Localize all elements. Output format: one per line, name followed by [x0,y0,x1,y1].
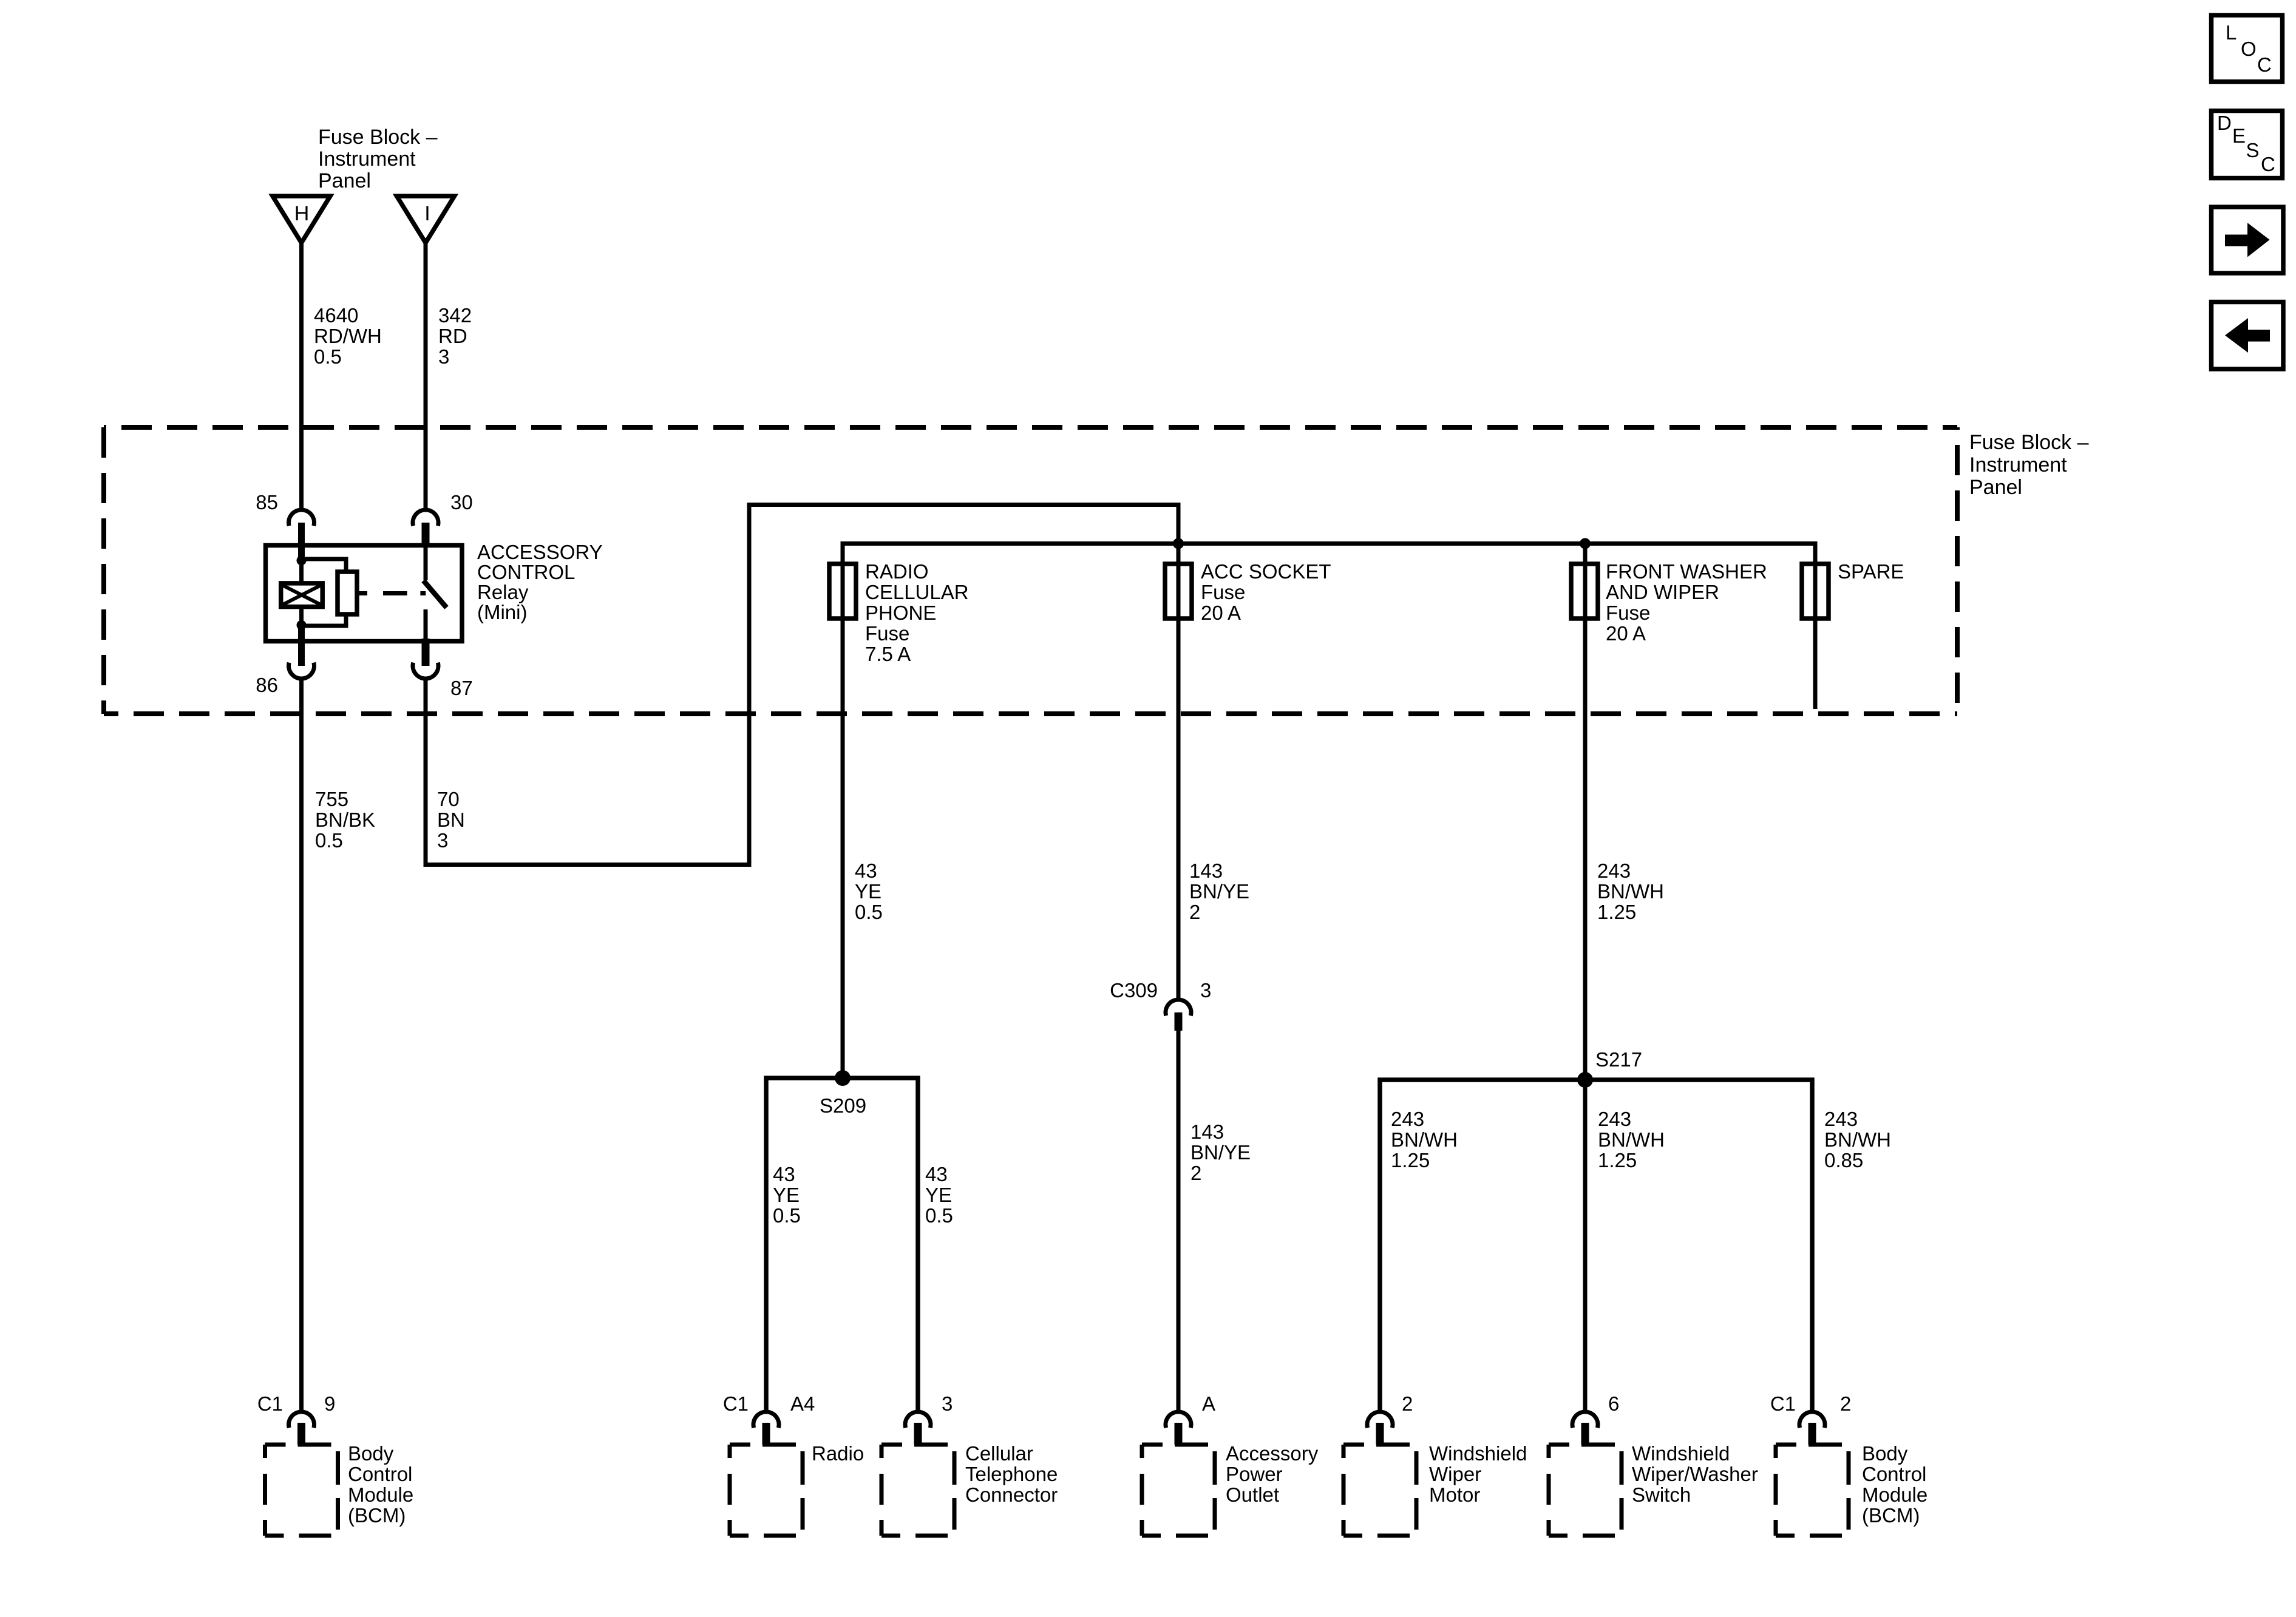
svg-text:43: 43 [773,1163,795,1185]
fuse F1: RADIO CELLULAR PHONE [829,564,856,619]
wire label 243 BN/WH 1.25 (upper) [1597,859,1664,923]
wire label 43 YE 0.5 (S209 left) [773,1163,801,1227]
svg-text:Module: Module [348,1483,413,1506]
legend box DESC [2212,111,2283,178]
svg-text:Fuse Block –: Fuse Block – [1969,431,2089,454]
svg-text:143: 143 [1189,859,1223,882]
wire label 43 YE 0.5 (upper) [855,859,883,923]
relay coil leg wire [299,546,304,583]
svg-text:Accessory: Accessory [1226,1442,1319,1465]
svg-text:342: 342 [438,304,472,327]
wire from triangle I to pin 30 [424,243,428,510]
svg-text:S217: S217 [1595,1048,1642,1071]
svg-text:BN/WH: BN/WH [1824,1128,1891,1151]
svg-text:9: 9 [324,1392,335,1415]
svg-text:30: 30 [450,491,473,514]
svg-text:3: 3 [438,345,449,368]
svg-text:A: A [1202,1392,1215,1415]
fuse F2: ACC SOCKET [1165,564,1192,619]
svg-text:0.5: 0.5 [925,1204,953,1227]
svg-text:43: 43 [855,859,877,882]
splice S217 [1380,1048,1812,1412]
svg-text:Wiper: Wiper [1429,1463,1481,1485]
svg-text:2: 2 [1190,1162,1201,1184]
svg-text:C: C [2261,153,2275,175]
svg-text:Instrument: Instrument [1969,453,2067,476]
svg-text:PHONE: PHONE [865,602,936,624]
fuse bus [843,544,1815,619]
svg-text:S: S [2246,139,2260,161]
svg-text:Control: Control [348,1463,412,1485]
svg-text:7.5 A: 7.5 A [865,643,911,665]
svg-text:E: E [2232,124,2246,147]
svg-text:ACC SOCKET: ACC SOCKET [1201,560,1331,583]
svg-text:C1: C1 [723,1392,749,1415]
svg-text:6: 6 [1608,1392,1619,1415]
relay label [477,541,603,623]
svg-text:FRONT WASHER: FRONT WASHER [1606,560,1767,583]
svg-text:Panel: Panel [1969,476,2022,499]
svg-text:A4: A4 [790,1392,815,1415]
svg-text:3: 3 [437,829,448,852]
relay U: ACCESSORY CONTROL Relay (Mini) box [266,546,463,642]
svg-text:YE: YE [855,880,881,903]
svg-text:Panel: Panel [318,169,371,192]
svg-text:Windshield: Windshield [1429,1442,1527,1465]
coil suppression resistor branch [302,559,358,626]
svg-text:1.25: 1.25 [1391,1149,1430,1171]
svg-text:2: 2 [1189,901,1200,923]
header: Fuse Block - Instrument Panel (top left) [318,126,438,192]
svg-text:AND WIPER: AND WIPER [1606,581,1719,603]
junction dot (coil top) [297,555,307,565]
wire label 243 BN/WH 1.25 (S217 middle) [1598,1108,1665,1171]
svg-text:Cellular: Cellular [965,1442,1033,1465]
fuse F3: FRONT WASHER AND WIPER [1571,564,1598,619]
svg-text:87: 87 [450,677,473,699]
svg-text:(BCM): (BCM) [348,1504,406,1527]
svg-text:Radio: Radio [812,1442,864,1465]
svg-text:Outlet: Outlet [1226,1483,1279,1506]
svg-text:0.85: 0.85 [1824,1149,1863,1171]
connector/component: Windshield Wiper Motor [1343,1392,1527,1536]
svg-text:I: I [424,202,430,225]
svg-text:4640: 4640 [314,304,358,327]
pin 87 [413,639,473,699]
wire C309 to outlet [1177,1030,1181,1412]
svg-text:143: 143 [1190,1120,1224,1143]
svg-text:BN: BN [437,808,465,831]
svg-text:L: L [2226,21,2237,44]
svg-text:CONTROL: CONTROL [477,561,575,583]
wire label 342 RD 3 [438,304,472,368]
svg-text:2: 2 [1840,1392,1851,1415]
svg-text:243: 243 [1391,1108,1424,1130]
wire label 43 YE 0.5 (S209 right) [925,1163,953,1227]
svg-text:RADIO: RADIO [865,560,929,583]
svg-text:C1: C1 [257,1392,283,1415]
junction dot (coil bottom) [297,620,307,630]
svg-text:1.25: 1.25 [1597,901,1636,923]
wire label 4640 RD/WH 0.5 [314,304,382,368]
junction dot bus/ACC [1173,538,1184,549]
svg-text:RD: RD [438,325,467,347]
svg-text:86: 86 [256,674,278,696]
svg-text:20 A: 20 A [1201,602,1241,624]
wire ACC fuse to C309 [1177,619,1181,1001]
fuse F2 label [1201,560,1331,624]
svg-text:(BCM): (BCM) [1862,1504,1920,1527]
svg-text:O: O [2241,38,2257,60]
wire coil bottom to dot [299,607,304,627]
svg-text:3: 3 [1200,979,1211,1002]
svg-text:H: H [294,202,310,225]
svg-text:C309: C309 [1110,979,1158,1002]
svg-text:243: 243 [1597,859,1631,882]
svg-text:YE: YE [773,1184,800,1206]
svg-text:Telephone: Telephone [965,1463,1058,1485]
connector/component: Accessory Power Outlet [1142,1392,1319,1536]
off-page connector triangle H [273,196,330,243]
relay coil (crossed box) [281,583,323,607]
fuse F3 label [1606,560,1767,645]
svg-text:Switch: Switch [1632,1483,1691,1506]
wire label 243 BN/WH 0.85 (S217 right) [1824,1108,1891,1171]
svg-text:Fuse: Fuse [1201,581,1245,603]
wire label 143 BN/YE 2 (upper) [1189,859,1249,923]
fuse F1 label [865,560,969,665]
wire spare fuse stub [1813,619,1818,709]
svg-text:Body: Body [348,1442,394,1465]
legend box arrow left [2212,302,2284,370]
connector/component: Radio [723,1392,864,1536]
legend box LOC [2212,15,2283,82]
svg-text:(Mini): (Mini) [477,601,527,623]
pin 30 [413,491,473,547]
connector/component: Body Control Module (BCM) right [1770,1392,1927,1536]
connector/component: Windshield Wiper/Washer Switch [1549,1392,1758,1536]
svg-text:BN/WH: BN/WH [1597,880,1664,903]
svg-text:755: 755 [315,788,348,810]
wire bus to washer fuse [1583,544,1588,619]
junction dot bus/washer [1580,538,1591,549]
svg-text:RD/WH: RD/WH [314,325,382,347]
svg-text:BN/BK: BN/BK [315,808,375,831]
svg-text:BN/WH: BN/WH [1598,1128,1665,1151]
svg-text:Motor: Motor [1429,1483,1480,1506]
svg-text:BN/YE: BN/YE [1190,1141,1251,1164]
wire from triangle H to pin 85 [299,243,304,510]
svg-text:YE: YE [925,1184,952,1206]
svg-text:Windshield: Windshield [1632,1442,1730,1465]
fuse block dashed box [104,427,1957,714]
svg-text:0.5: 0.5 [315,829,343,852]
actuator dashed link [357,591,426,595]
svg-text:SPARE: SPARE [1838,560,1904,583]
svg-text:BN/WH: BN/WH [1391,1128,1458,1151]
wire label 243 BN/WH 1.25 (S217 left) [1391,1108,1458,1171]
svg-text:Fuse: Fuse [1606,602,1650,624]
svg-text:S209: S209 [820,1094,866,1117]
svg-text:0.5: 0.5 [314,345,342,368]
svg-text:85: 85 [256,491,278,514]
wire label 755 BN/BK 0.5 [315,788,375,852]
splice S209 [766,1070,918,1412]
svg-text:243: 243 [1598,1108,1631,1130]
connector/component: Body Control Module (BCM) left [257,1392,413,1536]
svg-text:C1: C1 [1770,1392,1796,1415]
svg-text:0.5: 0.5 [855,901,883,923]
svg-text:20 A: 20 A [1606,622,1646,645]
svg-text:Connector: Connector [965,1483,1058,1506]
svg-text:70: 70 [437,788,460,810]
wire label 143 BN/YE 2 (lower) [1190,1120,1251,1184]
wire pin 86 to BCM [299,679,304,1412]
header: Fuse Block - Instrument Panel (right of dashed box) [1969,431,2089,499]
relay switch [424,546,447,642]
svg-text:Module: Module [1862,1483,1927,1506]
pin 85 [256,491,314,560]
svg-text:Fuse Block –: Fuse Block – [318,126,438,149]
wire radio fuse to S209 [841,619,845,1078]
wire bus to ACC fuse [1177,544,1181,619]
svg-text:3: 3 [942,1392,953,1415]
svg-text:Fuse: Fuse [865,622,909,645]
svg-text:C: C [2257,53,2272,76]
off-page connector triangle I [397,196,455,243]
svg-text:Control: Control [1862,1463,1926,1485]
inline connector C309 [1110,979,1211,1031]
svg-text:ACCESSORY: ACCESSORY [477,541,603,563]
svg-text:Wiper/Washer: Wiper/Washer [1632,1463,1758,1485]
svg-text:Instrument: Instrument [318,147,416,171]
fuse F4: SPARE [1802,564,1829,619]
svg-text:2: 2 [1402,1392,1413,1415]
svg-text:Body: Body [1862,1442,1908,1465]
svg-text:Relay: Relay [477,581,529,603]
wire washer fuse through S217 to switch [1583,619,1588,1412]
svg-text:0.5: 0.5 [773,1204,801,1227]
svg-text:243: 243 [1824,1108,1858,1130]
connector/component: Cellular Telephone Connector [881,1392,1058,1536]
svg-text:D: D [2217,112,2232,134]
legend box arrow right [2212,207,2284,273]
svg-text:1.25: 1.25 [1598,1149,1637,1171]
svg-text:CELLULAR: CELLULAR [865,581,969,603]
wire pin 87 to fuse bus (down, right, up, right, down) [426,505,1178,865]
svg-text:43: 43 [925,1163,948,1185]
pin 86 [256,628,314,696]
svg-text:Power: Power [1226,1463,1283,1485]
wire label 70 BN 3 [437,788,465,852]
svg-text:BN/YE: BN/YE [1189,880,1249,903]
